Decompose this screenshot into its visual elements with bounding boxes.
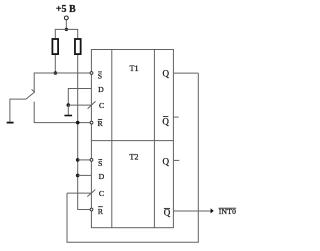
arrowhead INT0 — [211, 208, 214, 213]
power terminal circle — [64, 16, 68, 20]
switch SA1 lever — [26, 92, 35, 99]
svg-text:Q: Q — [163, 69, 170, 79]
IC outline DD1 — [91, 50, 173, 228]
resistor R1 — [52, 39, 58, 54]
wire Q T1 output to feedback loop — [173, 72, 198, 74]
IC divider output column — [153, 50, 155, 228]
svg-text:Q: Q — [162, 156, 169, 166]
wire D input T2 — [78, 174, 92, 176]
wire +5V rail — [55, 29, 77, 38]
svg-text:Q: Q — [164, 208, 171, 218]
IC divider T1/T2 — [91, 140, 173, 142]
resistor R2 — [75, 39, 81, 54]
svg-text:T1: T1 — [129, 64, 138, 73]
wire switch pole to ground — [10, 99, 26, 122]
wire C input T2 from feedback loop — [67, 192, 91, 194]
svg-text:R: R — [97, 119, 103, 128]
svg-text:D: D — [98, 85, 104, 94]
wire ground stem C/D T1 — [67, 105, 69, 115]
wire Qbar T1 stub — [173, 116, 178, 118]
switch SA1 lever tick — [32, 90, 35, 93]
node dot R-T1 / pull-up chain — [76, 121, 80, 125]
svg-text:C: C — [99, 189, 104, 198]
svg-text:Q: Q — [162, 116, 169, 126]
wire R2 pull-up chain down to R input T2 — [78, 55, 90, 210]
svg-text:+5 В: +5 В — [56, 4, 76, 15]
inversion bubble R T1 — [90, 121, 93, 124]
wire C input T1 — [68, 104, 91, 106]
wire terminal to +5V rail — [65, 20, 67, 29]
dynamic input slash C T2 — [87, 190, 95, 197]
svg-text:S: S — [98, 159, 102, 168]
wire net S-T1: switch top throw to S input T1 — [34, 73, 90, 92]
svg-text:C: C — [99, 101, 104, 110]
node dot S-T2 / pull-up chain — [76, 158, 80, 162]
svg-text:R: R — [98, 207, 104, 216]
node dot D-T2 / pull-up chain — [76, 174, 80, 178]
wire Qbar T2 to INT0 — [173, 210, 211, 212]
svg-text:S: S — [98, 72, 102, 81]
svg-text:D: D — [99, 172, 105, 181]
inversion bubble R T2 — [90, 208, 93, 211]
dynamic input slash C T1 — [88, 101, 96, 108]
wire R1 bottom to node A — [54, 55, 56, 73]
feedback loop wire Q T1 to C T2 — [67, 73, 198, 242]
node dot D/C ground tie T1 — [67, 103, 71, 107]
wire net R-T1: switch bottom throw to R input T1 — [34, 102, 90, 123]
node +5V rail junction dot — [65, 28, 68, 31]
wire S input T2 — [78, 159, 90, 161]
node A dot (R1 / switch / S-T1 net) — [54, 71, 58, 75]
wire D input T1 — [68, 89, 91, 106]
IC divider left pin column — [111, 50, 113, 228]
ground under switch pole — [7, 122, 14, 124]
wire Q T2 stub — [173, 159, 179, 161]
inversion bubble S T2 — [90, 159, 93, 162]
inversion bubble S T1 — [90, 72, 93, 75]
ground under C/D T1 — [64, 115, 72, 117]
svg-text:T2: T2 — [129, 153, 138, 162]
